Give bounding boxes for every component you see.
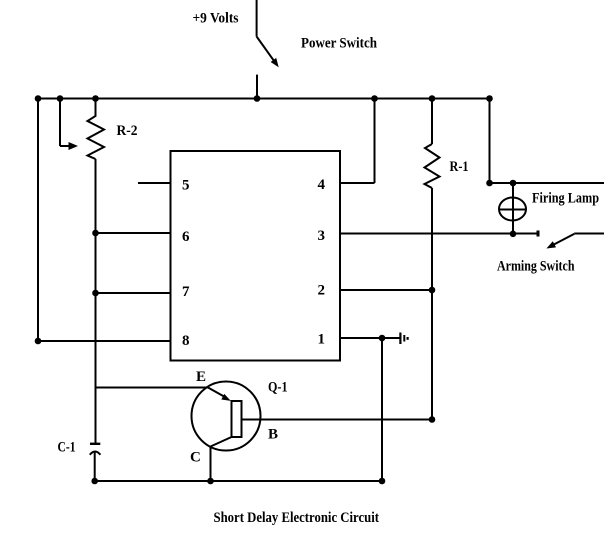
junction node pin8 left: [35, 338, 42, 345]
wire arrow branch vertical: [59, 99, 61, 147]
junction node pin1 ground: [379, 335, 386, 342]
junction node top-left corner: [35, 95, 42, 102]
arming switch S2 right lead: [574, 233, 604, 235]
svg-text:C-1: C-1: [58, 440, 76, 456]
wire pin 1: [340, 337, 400, 339]
junction node pin6 / R2 bottom: [92, 230, 99, 237]
wire middle rail R2 to C1: [95, 159, 97, 444]
junction node C1 bottom: [91, 478, 98, 485]
wire pin 7: [96, 292, 171, 294]
capacitor C1 curved plate: [90, 452, 101, 455]
wire pin 4 vertical: [374, 99, 376, 184]
power switch S1 lower stub: [256, 75, 258, 99]
power switch S1 vertical lead: [256, 0, 258, 37]
svg-text:Arming Switch: Arming Switch: [497, 259, 575, 275]
svg-text:R-1: R-1: [450, 159, 469, 175]
wire emitter horizontal: [96, 387, 209, 389]
wire left rail: [37, 99, 39, 342]
junction node lamp bottom: [510, 231, 517, 238]
transistor Q1 emitter arrowhead: [221, 394, 231, 401]
arrowhead pointing at R-2: [69, 142, 79, 150]
junction node base / R1 bottom: [429, 416, 436, 423]
svg-text:6: 6: [182, 229, 190, 245]
resistor R1 top lead: [431, 99, 433, 145]
wire pin 3: [340, 233, 538, 235]
firing lamp DS1 circle: [499, 198, 526, 221]
transistor Q1 emitter line: [208, 388, 225, 397]
arming switch S2 blade: [551, 234, 574, 246]
pin 3 wire end tick: [537, 231, 540, 237]
svg-text:Short Delay Electronic Circuit: Short Delay Electronic Circuit: [214, 510, 380, 526]
svg-text:E: E: [196, 369, 206, 385]
junction node collector bottom: [207, 478, 214, 485]
wire right corner vertical: [489, 99, 491, 184]
svg-text:R-2: R-2: [117, 123, 138, 139]
wire base of Q1 to R1 rail: [242, 419, 433, 421]
wire pin 6: [96, 232, 171, 234]
svg-text:4: 4: [318, 177, 326, 193]
firing lamp DS1 filament line: [499, 209, 526, 211]
wire top supply bus: [38, 98, 490, 100]
junction node right corner at lamp rail: [486, 180, 493, 187]
svg-text:5: 5: [182, 178, 190, 194]
svg-text:1: 1: [318, 332, 326, 348]
capacitor C1 top plate: [90, 443, 100, 445]
svg-text:+9 Volts: +9 Volts: [193, 11, 239, 27]
svg-text:3: 3: [318, 228, 326, 244]
junction node bottom-right: [379, 478, 386, 485]
arming switch S2 arrowhead: [546, 241, 556, 248]
junction node power switch: [254, 95, 261, 102]
wire pin 1 vertical drop: [381, 338, 383, 481]
svg-text:Firing Lamp: Firing Lamp: [532, 191, 599, 207]
junction node R2 top: [92, 95, 99, 102]
svg-text:C: C: [190, 450, 201, 466]
svg-text:8: 8: [182, 333, 190, 349]
wire pin 4 horizontal: [340, 182, 375, 184]
wire pin 2: [340, 289, 432, 291]
svg-text:Power Switch: Power Switch: [301, 36, 378, 52]
wire arrow branch horizontal: [60, 145, 70, 147]
svg-text:B: B: [268, 427, 278, 443]
transistor Q1 circle: [192, 382, 261, 451]
junction node pin2 / R1: [429, 287, 436, 294]
IC U1 body: [171, 151, 341, 361]
resistor R2 zigzag: [88, 99, 105, 160]
junction node top-right corner: [486, 95, 493, 102]
power switch S1 arrowhead: [271, 58, 279, 67]
resistor R1 zigzag: [425, 144, 440, 188]
wire pin 8: [38, 340, 171, 342]
wire lamp vertical: [512, 183, 514, 234]
capacitor C1 bottom lead: [94, 453, 96, 482]
svg-text:Q-1: Q-1: [268, 380, 288, 396]
svg-text:7: 7: [182, 284, 190, 300]
wire lamp top rail: [490, 182, 604, 184]
wire pin 5 stub: [138, 182, 171, 184]
junction node R1 top: [429, 95, 436, 102]
junction node pin4 riser: [371, 95, 378, 102]
resistor R1 bottom lead: [431, 188, 433, 420]
junction node lamp top: [510, 180, 517, 187]
power switch S1 blade: [257, 37, 274, 61]
ground symbol at pin 1: [399, 333, 408, 345]
transistor Q1 base bar: [232, 401, 242, 437]
wire bottom bus: [95, 480, 382, 482]
transistor Q1 collector line: [211, 437, 232, 447]
svg-text:2: 2: [318, 283, 326, 299]
junction node arrow branch: [57, 95, 64, 102]
wire collector vertical: [210, 447, 212, 482]
junction node pin7: [92, 290, 99, 297]
